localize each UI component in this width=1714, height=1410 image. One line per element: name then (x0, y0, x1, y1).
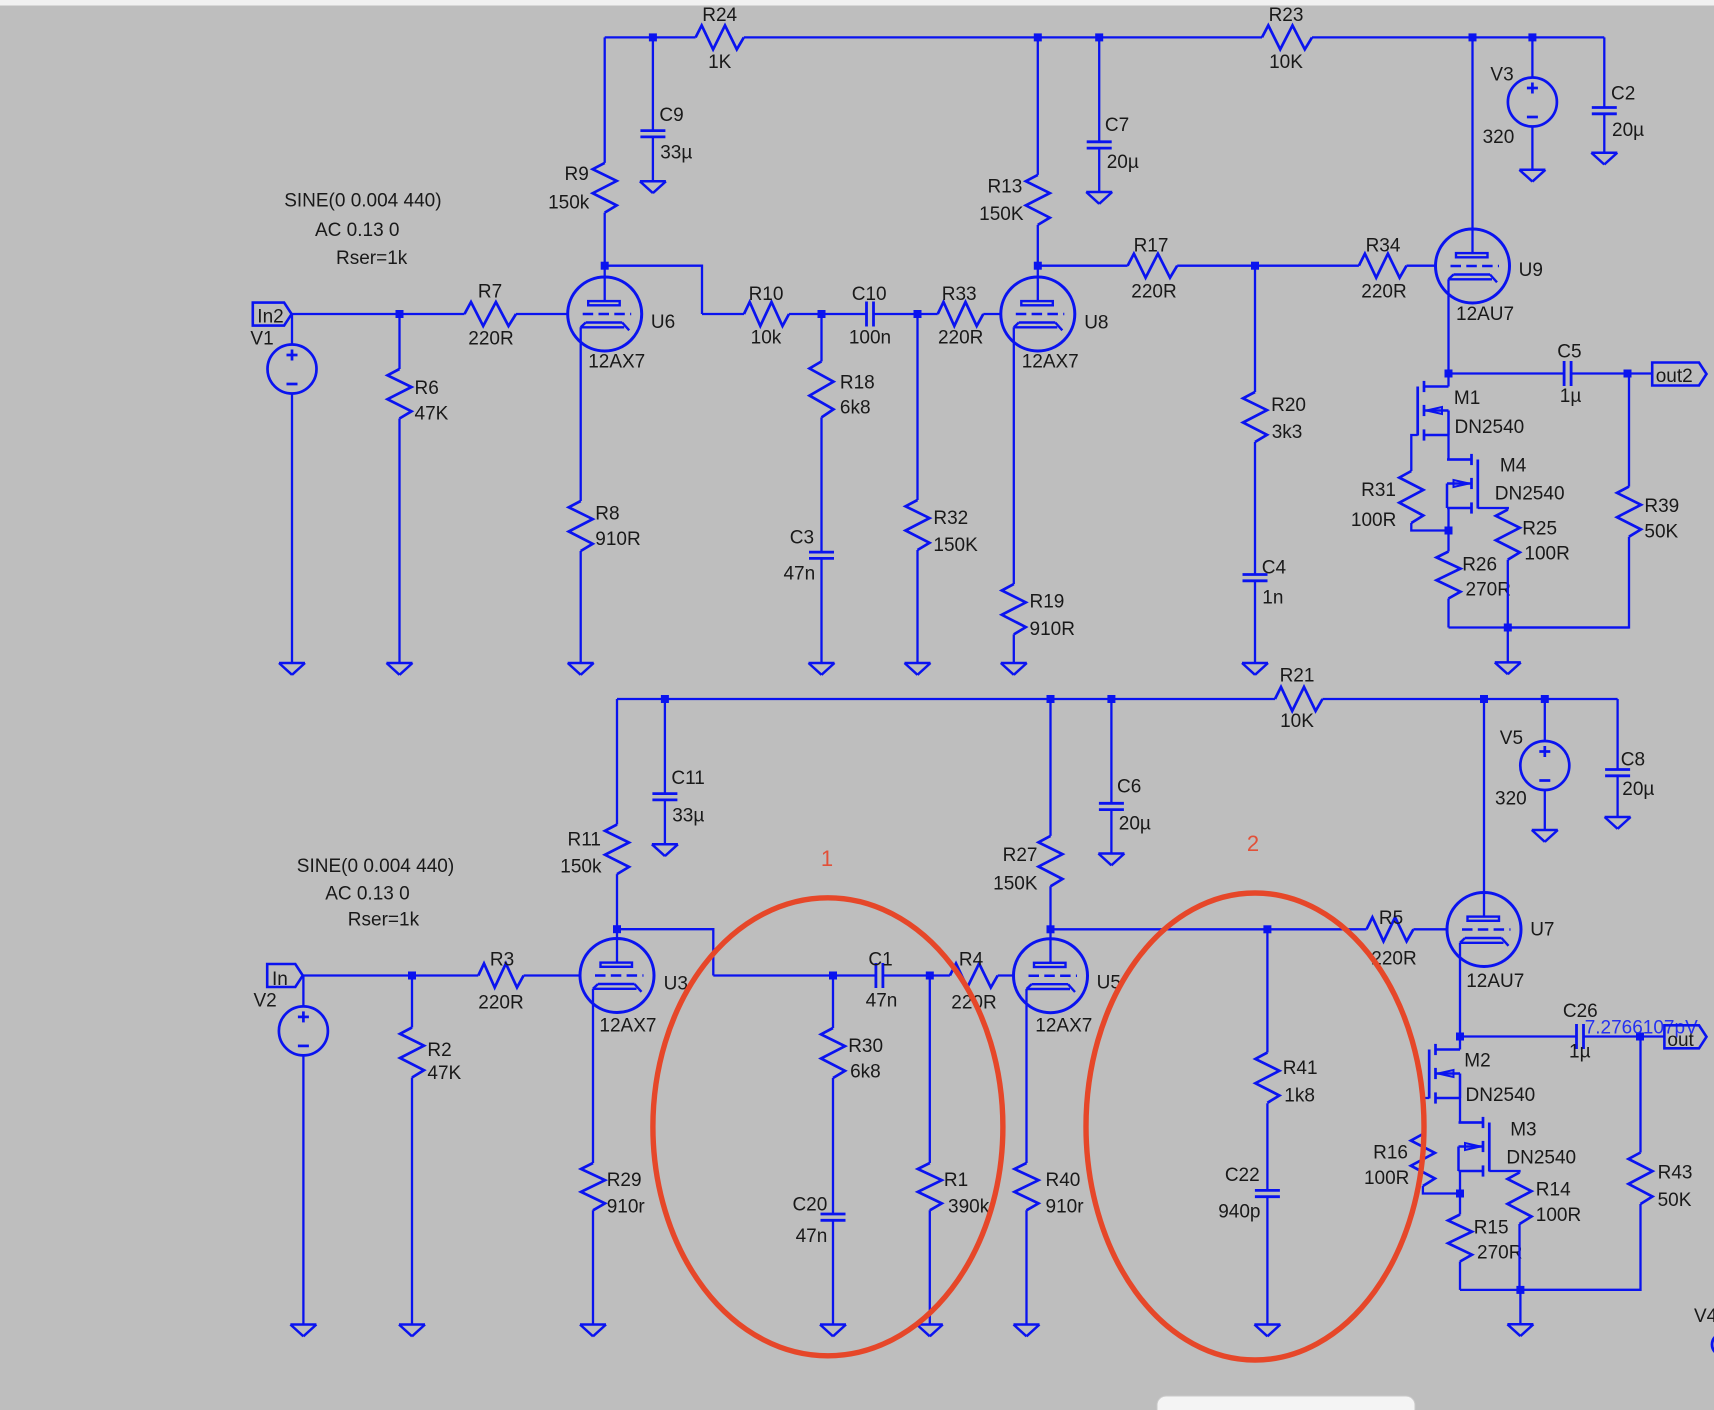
svg-text:47n: 47n (783, 563, 815, 584)
ground under V3 (1519, 170, 1545, 182)
ground under M cluster 2 (1507, 1324, 1533, 1336)
wire R16 to M3 source node (1423, 1186, 1460, 1194)
svg-text:Rser=1k: Rser=1k (336, 248, 408, 269)
svg-text:R31: R31 (1361, 480, 1396, 501)
label R40 (1046, 1170, 1081, 1191)
wire C5 to out2 (1571, 372, 1652, 374)
voltage source V2 (279, 1006, 328, 1055)
text Rser=1k V2 (348, 910, 420, 931)
node M cluster ground junction 2 (1516, 1286, 1524, 1294)
wire V1 to ground (291, 394, 293, 664)
label 1u (C26) (1569, 1042, 1591, 1063)
label R24 (702, 5, 737, 26)
node R39 junction (1624, 370, 1632, 378)
white toolbar box (1157, 1396, 1415, 1410)
resistor R5 (1367, 917, 1414, 941)
wire R27 to U5 plate (1049, 886, 1051, 963)
resistor R43 (1629, 1153, 1653, 1205)
capacitor C2 (1592, 108, 1617, 114)
label 150k (R11) (560, 857, 602, 878)
label 20u (C6) (1119, 814, 1151, 835)
label C10 (852, 284, 887, 305)
label 47n (C3) (783, 563, 815, 584)
svg-text:C7: C7 (1105, 115, 1129, 136)
svg-text:1n: 1n (1262, 588, 1283, 609)
svg-text:320: 320 (1495, 788, 1527, 809)
svg-text:C22: C22 (1225, 1165, 1260, 1186)
wire M1 gate lead (1411, 435, 1417, 471)
svg-text:3k3: 3k3 (1272, 422, 1303, 443)
label 910r (R29) (607, 1197, 646, 1218)
text Rser=1k V1 (336, 248, 408, 269)
label In (272, 969, 288, 990)
node C9 junction (649, 33, 657, 41)
ground under C3 (809, 663, 835, 675)
label R7 (478, 282, 502, 303)
resistor R1 (918, 1163, 942, 1210)
wire rail corner to C2 (1603, 37, 1605, 107)
label R33 (942, 284, 977, 305)
svg-text:SINE(0 0.004 440): SINE(0 0.004 440) (284, 190, 441, 211)
label R39 (1644, 496, 1679, 517)
wire C8 to ground (1616, 776, 1618, 817)
svg-text:10K: 10K (1280, 711, 1314, 732)
wire R32 top lead (916, 314, 918, 500)
svg-text:910R: 910R (595, 529, 640, 550)
label R8 (595, 503, 619, 524)
resistor R6 (388, 369, 412, 419)
label 47K (R2) (427, 1063, 461, 1084)
label U9 (1519, 260, 1543, 281)
resistor R29 (581, 1163, 605, 1210)
mosfet M3 (1459, 1117, 1490, 1177)
svg-text:2: 2 (1247, 831, 1259, 856)
svg-text:100R: 100R (1524, 544, 1569, 565)
wire R2 to ground (411, 1078, 413, 1325)
label 12AU7 (U7) (1466, 971, 1524, 992)
wire rail corner to R9 (604, 37, 606, 162)
ground under R1 (917, 1325, 943, 1337)
svg-text:390k: 390k (948, 1197, 990, 1218)
resistor R9 (593, 163, 617, 213)
wire C11 top lead (664, 699, 666, 794)
wire bottom supply rail left (617, 698, 1275, 700)
label R43 (1658, 1162, 1693, 1183)
wire top supply rail right (1312, 36, 1604, 38)
node U6 plate junction (601, 262, 609, 270)
label 270R (R26) (1466, 580, 1511, 601)
svg-text:R27: R27 (1003, 845, 1038, 866)
svg-text:220R: 220R (478, 992, 523, 1013)
svg-text:1k8: 1k8 (1284, 1086, 1315, 1107)
svg-text:R26: R26 (1462, 555, 1497, 576)
resistor R4 (950, 964, 998, 988)
svg-text:DN2540: DN2540 (1495, 484, 1565, 505)
node U8 plate junction (1034, 262, 1042, 270)
svg-text:SINE(0 0.004 440): SINE(0 0.004 440) (297, 856, 454, 877)
wire R20 to C4 (1254, 442, 1256, 575)
label C22 (1225, 1165, 1260, 1186)
ground under C2 (1591, 153, 1617, 165)
label R15 (1474, 1218, 1509, 1239)
label C11 (671, 768, 704, 789)
resistor R2 (400, 1028, 424, 1078)
label 910R (R19) (1030, 619, 1075, 640)
wire R41 to C22 (1266, 1103, 1268, 1190)
node C6 junction (1107, 695, 1115, 703)
label C4 (1262, 558, 1287, 579)
wire R31 to M4 source node (1411, 523, 1448, 531)
svg-text:DN2540: DN2540 (1506, 1147, 1576, 1168)
svg-text:47K: 47K (415, 404, 449, 425)
svg-text:V4: V4 (1694, 1306, 1714, 1327)
svg-text:C3: C3 (790, 528, 814, 549)
wire U3 plate to C1 column (617, 929, 713, 975)
resistor R16 (1411, 1134, 1435, 1186)
svg-text:R29: R29 (607, 1170, 642, 1191)
resistor R39 (1617, 487, 1641, 537)
label C1 (868, 949, 892, 970)
wire C9 top lead (652, 37, 654, 130)
label V2 (254, 990, 277, 1011)
node U5 plate junction (1047, 925, 1055, 933)
wire M1 source to M4 drain (1449, 435, 1472, 460)
svg-text:V1: V1 (250, 329, 273, 350)
svg-text:910r: 910r (1046, 1197, 1085, 1218)
svg-text:100n: 100n (849, 328, 891, 349)
wire M cluster bottom rail (1449, 626, 1630, 628)
label 100R (R14) (1536, 1205, 1581, 1226)
wire R5 to U7 grid (1413, 928, 1447, 930)
label 1k8 (R41) (1284, 1086, 1315, 1107)
label 10K (R23) (1269, 52, 1303, 73)
label R14 (1536, 1179, 1571, 1200)
svg-text:V2: V2 (254, 990, 277, 1011)
svg-text:20µ: 20µ (1119, 814, 1151, 835)
wire U6 plate row to R10 (702, 313, 744, 315)
wire V3 to ground (1531, 127, 1533, 170)
svg-text:M4: M4 (1500, 456, 1527, 477)
resistor R33 (938, 302, 984, 326)
wire M3 gate to R14 (1489, 1171, 1519, 1173)
resistor R31 (1399, 471, 1423, 523)
red label 2 (1247, 831, 1259, 856)
label 150K (R27) (993, 874, 1038, 895)
node M4 source junction (1445, 527, 1453, 535)
wire bottom supply rail right (1323, 698, 1618, 700)
node R13 rail junction (1034, 33, 1042, 41)
capacitor C5 (1564, 361, 1571, 386)
node R6 junction (396, 310, 404, 318)
label 910R (R8) (595, 529, 640, 550)
wire R18 to C3 (820, 417, 822, 552)
wire R32 to ground (916, 550, 918, 663)
flag In (267, 964, 303, 987)
label 12AX7 (U3) (599, 1016, 656, 1037)
svg-text:C11: C11 (671, 768, 704, 789)
resistor R8 (569, 501, 593, 551)
wire C3 to ground (820, 558, 822, 663)
triode U6 (568, 277, 642, 351)
label 220R (R4) (951, 992, 996, 1013)
wire V5 to ground (1544, 790, 1546, 830)
svg-text:R14: R14 (1536, 1179, 1571, 1200)
text AC 0.13 0 V2 (325, 884, 410, 905)
label R17 (1134, 235, 1169, 256)
svg-text:R8: R8 (595, 503, 619, 524)
svg-text:47n: 47n (866, 990, 898, 1011)
capacitor C26 (1577, 1024, 1584, 1049)
wire C1 to R4 (882, 974, 950, 976)
svg-text:47n: 47n (796, 1226, 828, 1247)
svg-text:R7: R7 (478, 282, 502, 303)
wire R43 to bottom rail (1520, 1204, 1640, 1290)
wire M cluster bottom rail 2 (1460, 1289, 1641, 1291)
label 50K (R43) (1658, 1190, 1692, 1211)
label 150k (R9) (548, 193, 590, 214)
svg-text:150K: 150K (979, 204, 1024, 225)
svg-text:R18: R18 (840, 373, 875, 394)
label C8 (1621, 750, 1645, 771)
node R32 junction (914, 310, 922, 318)
label DN2540 (M2) (1466, 1085, 1536, 1106)
label 150K (R32) (933, 535, 978, 556)
svg-text:50K: 50K (1644, 521, 1678, 542)
svg-text:R39: R39 (1644, 496, 1679, 517)
svg-text:AC 0.13 0: AC 0.13 0 (325, 884, 410, 905)
wire C9 to ground (652, 137, 654, 181)
capacitor C8 (1605, 770, 1630, 776)
text AC 0.13 0 V1 (315, 220, 400, 241)
label 100R (R25) (1524, 544, 1569, 565)
wire rail to R27 (1049, 699, 1051, 836)
resistor R24 (696, 25, 744, 49)
capacitor C1 (876, 963, 883, 988)
label 3k3 (R20) (1272, 422, 1303, 443)
label R21 (1280, 666, 1315, 687)
wire C10 to R33 (873, 313, 938, 315)
label R23 (1269, 5, 1304, 26)
label 390k (R1) (948, 1197, 990, 1218)
svg-text:R4: R4 (959, 949, 984, 970)
wire rail corner to C8 (1616, 699, 1618, 770)
node M2 drain junction (1456, 1033, 1464, 1041)
label C7 (1105, 115, 1129, 136)
svg-text:47K: 47K (427, 1063, 461, 1084)
svg-text:V5: V5 (1500, 728, 1523, 749)
label R41 (1283, 1058, 1318, 1079)
node R20 junction (1251, 262, 1259, 270)
svg-text:220R: 220R (1361, 281, 1406, 302)
flag In2 (253, 303, 292, 326)
label 100R (R16) (1364, 1168, 1409, 1189)
wire U5 plate to R41 junction (1051, 928, 1268, 930)
svg-text:M2: M2 (1464, 1050, 1490, 1071)
svg-text:R5: R5 (1379, 908, 1403, 929)
voltage source V5 (1520, 741, 1569, 790)
wire U9 cathode lead (1447, 279, 1449, 373)
voltage source V1 (268, 345, 317, 394)
svg-text:270R: 270R (1477, 1243, 1522, 1264)
svg-text:R32: R32 (933, 508, 968, 529)
label 220R (R7) (468, 329, 513, 350)
svg-text:R40: R40 (1046, 1170, 1081, 1191)
wire rail corner to R11 (616, 699, 618, 825)
wire R9 to U6 plate (604, 213, 606, 302)
svg-text:1µ: 1µ (1560, 386, 1582, 407)
node V5 rail junction (1541, 695, 1549, 703)
svg-text:out2: out2 (1656, 366, 1693, 387)
label R4 (959, 949, 984, 970)
label R9 (565, 164, 589, 185)
svg-text:50K: 50K (1658, 1190, 1692, 1211)
svg-text:12AU7: 12AU7 (1456, 304, 1514, 325)
label 20u (C7) (1107, 152, 1139, 173)
ground under R19 (1001, 663, 1027, 675)
label 10k (R10) (751, 328, 782, 349)
label 47K (R6) (415, 404, 449, 425)
svg-text:R19: R19 (1030, 591, 1065, 612)
svg-text:Rser=1k: Rser=1k (348, 910, 420, 931)
ground under C22 (1254, 1325, 1280, 1337)
label C3 (790, 528, 814, 549)
svg-text:R11: R11 (568, 830, 601, 851)
wire V5 top lead (1544, 699, 1546, 741)
resistor R23 (1262, 25, 1312, 49)
wire V2 to ground (302, 1055, 304, 1324)
wire R30 top lead (832, 976, 834, 1029)
svg-text:220R: 220R (468, 329, 513, 350)
label 220R (R34) (1361, 281, 1406, 302)
voltage source V4 edge (1712, 1334, 1714, 1356)
svg-text:C5: C5 (1557, 341, 1581, 362)
resistor R3 (478, 964, 523, 988)
svg-text:U9: U9 (1519, 260, 1543, 281)
label R10 (749, 284, 784, 305)
node R30 junction (829, 972, 837, 980)
svg-text:20µ: 20µ (1612, 120, 1644, 141)
ground under R6 (387, 663, 413, 675)
wire R26 to bottom rail (1447, 599, 1449, 628)
label R16 (1373, 1142, 1408, 1163)
svg-text:R43: R43 (1658, 1162, 1693, 1183)
node M3 source junction (1456, 1190, 1464, 1198)
wire R15 to bottom rail (1459, 1262, 1461, 1290)
svg-text:R1: R1 (944, 1170, 968, 1191)
wire C7 to ground (1098, 148, 1100, 192)
wire R8 to ground (580, 551, 582, 663)
label C5 (1557, 341, 1581, 362)
wire M4 gate to R25 (1478, 508, 1508, 510)
ground under C6 (1098, 854, 1124, 866)
wire R19 to ground (1013, 634, 1015, 663)
label R3 (490, 949, 514, 970)
label 220R (R17) (1131, 281, 1176, 302)
label M2 (1464, 1050, 1490, 1071)
triode U9 (1436, 229, 1510, 303)
resistor R10 (744, 302, 789, 326)
svg-text:320: 320 (1483, 127, 1515, 148)
ground under R29 (580, 1325, 606, 1337)
svg-text:150k: 150k (560, 857, 602, 878)
ground under V1 (279, 663, 305, 675)
label U8 (1084, 313, 1108, 334)
mosfet M1 (1418, 381, 1449, 441)
label 100R (R31) (1351, 510, 1396, 531)
label 47n (C20) (796, 1226, 828, 1247)
wire C20 to ground (832, 1220, 834, 1324)
triode U3 (580, 939, 654, 1013)
svg-text:6k8: 6k8 (840, 398, 871, 419)
wire R41 top lead (1266, 929, 1268, 1052)
svg-text:C6: C6 (1117, 777, 1141, 798)
ground under R2 (399, 1325, 425, 1337)
triode U5 (1014, 939, 1088, 1013)
wire C26 to out (1584, 1035, 1665, 1037)
triode U8 (1001, 277, 1075, 351)
capacitor C9 (640, 131, 665, 137)
wire R39 to bottom rail (1508, 537, 1629, 628)
ground under R8 (568, 663, 594, 675)
svg-text:In2: In2 (257, 307, 283, 328)
label V3 (1490, 65, 1513, 86)
resistor R41 (1255, 1053, 1279, 1103)
wire U5 cathode lead (1025, 989, 1027, 1163)
svg-text:R41: R41 (1283, 1058, 1318, 1079)
svg-text:R2: R2 (427, 1040, 451, 1061)
label U3 (664, 974, 688, 995)
label V5 (1500, 728, 1523, 749)
wire R40 to ground (1025, 1210, 1027, 1324)
wire V1 top lead (291, 314, 293, 345)
svg-text:R25: R25 (1522, 519, 1557, 540)
node R41 junction (1263, 925, 1271, 933)
label 33u (C11) (672, 806, 704, 827)
ground under C11 (652, 844, 678, 856)
wire M1 drain lead (1447, 374, 1449, 387)
label DN2540 (M4) (1495, 484, 1565, 505)
wire out row (1460, 1035, 1577, 1037)
node C11 junction (661, 695, 669, 703)
label 1K (R24) (708, 52, 732, 73)
label 220R (R33) (938, 328, 983, 349)
resistor R26 (1437, 552, 1461, 599)
svg-text:R10: R10 (749, 284, 784, 305)
resistor R21 (1275, 687, 1323, 711)
svg-text:150k: 150k (548, 193, 590, 214)
wire ground lead M cluster (1507, 628, 1509, 663)
label 12AX7 (U6) (588, 352, 645, 373)
label 150K (R13) (979, 204, 1024, 225)
resistor R18 (810, 361, 834, 417)
label R25 (1522, 519, 1557, 540)
label C9 (659, 105, 683, 126)
svg-text:R33: R33 (942, 284, 977, 305)
label DN2540 (M1) (1455, 417, 1525, 438)
wire R7 to U6 grid (516, 313, 568, 315)
svg-text:12AX7: 12AX7 (599, 1016, 656, 1037)
svg-text:C10: C10 (852, 284, 887, 305)
svg-text:220R: 220R (1131, 281, 1176, 302)
svg-text:20µ: 20µ (1107, 152, 1139, 173)
wire out2 row (1449, 372, 1565, 374)
svg-text:100R: 100R (1351, 510, 1396, 531)
wire R6 to ground (398, 419, 400, 664)
svg-text:U7: U7 (1530, 920, 1554, 941)
label 6k8 (R30) (850, 1061, 881, 1082)
wire V3 top lead (1531, 37, 1533, 77)
wire U7 cathode lead (1459, 943, 1461, 1037)
